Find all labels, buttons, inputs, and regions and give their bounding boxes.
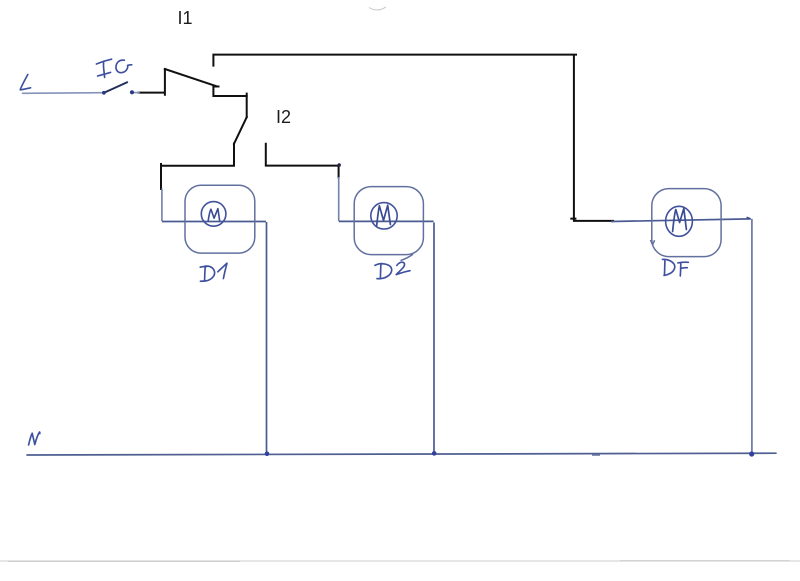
svg-text:I1: I1 — [178, 8, 193, 28]
svg-text:I2: I2 — [276, 107, 291, 127]
